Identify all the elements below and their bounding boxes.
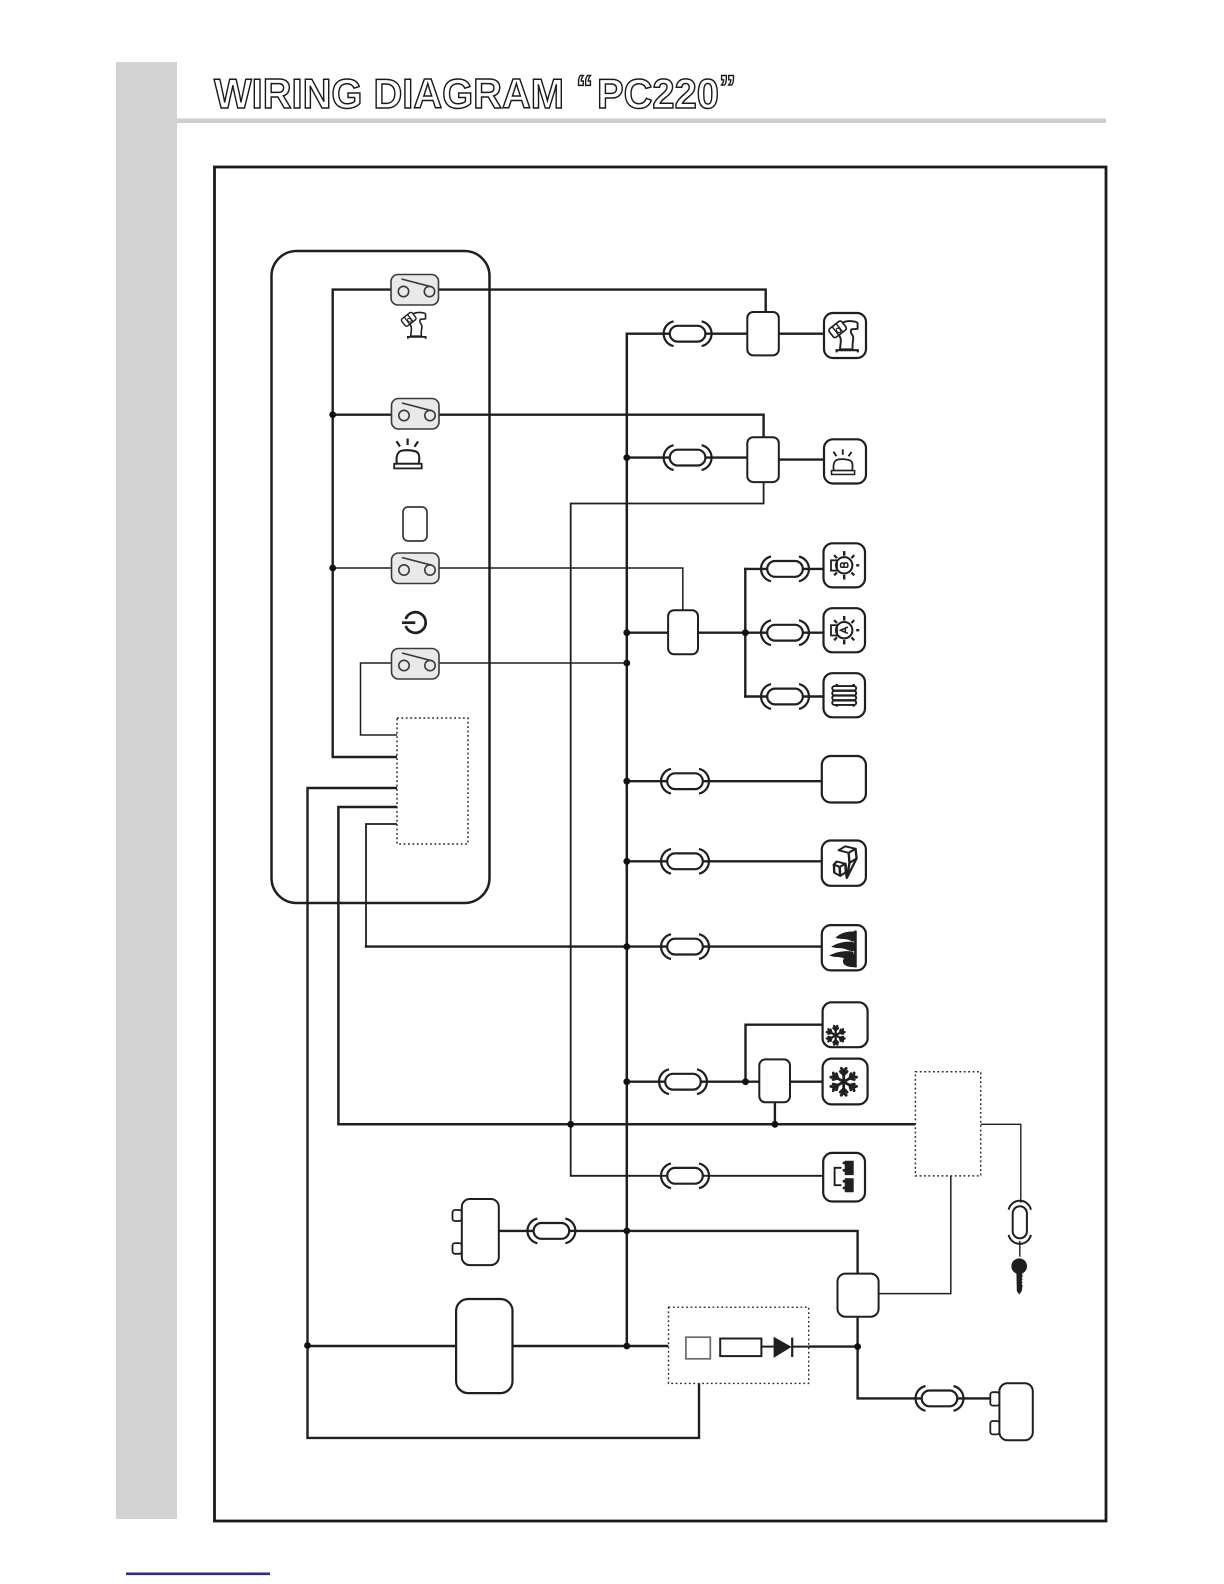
wire row1 relay K1 to load box L1 (779, 333, 824, 335)
relay K7 (759, 1059, 790, 1102)
load box L3 lamp B (824, 543, 866, 587)
junction node snowflake branch (742, 1078, 749, 1085)
junction node bus transformer row (623, 1228, 630, 1235)
icon lamp A in load box L4 (831, 616, 859, 644)
load box L7 ice (822, 841, 866, 886)
wire SW4 left to dotted block (361, 663, 398, 735)
icon big snowflake in load box L10 (830, 1068, 857, 1095)
wire dotted block to bottom loop via left riser (308, 788, 700, 1438)
wire timer bottom to relay K8 (879, 1176, 951, 1294)
load box L8 flame (822, 925, 866, 970)
diode D1 (774, 1337, 809, 1358)
icon small snowflake in load box L9 (826, 1026, 845, 1045)
switch SW3 (392, 553, 440, 584)
switch SW4 (392, 649, 440, 680)
title underline (177, 119, 1106, 124)
timer dotted box (915, 1072, 980, 1176)
connector CN9 snowflake (659, 1069, 707, 1094)
connector CN6 (661, 769, 709, 794)
wire row2 bus to relay K2 (627, 456, 748, 458)
relay K1 (747, 312, 779, 355)
junction node SW3 riser (329, 565, 336, 572)
connector CN1 (664, 321, 712, 346)
load box L5 heater (824, 673, 866, 717)
title text WIRING DIAGRAM PC220 (214, 69, 736, 117)
icon flame in load box L8 (829, 931, 855, 968)
wire row7 branch up to small snowflake box (746, 1025, 823, 1082)
wire row6 flame row (366, 945, 822, 947)
svg-text:“: “ (576, 69, 593, 107)
connector CN8 flame (661, 934, 709, 959)
wire SW1 left to panel vertical riser (333, 290, 397, 757)
wire diode block to junction (809, 1345, 858, 1347)
wire SW2 to relay K2 (439, 415, 764, 438)
wire relay K7 to big snowflake box (790, 1080, 823, 1082)
wire SW3 left stub (333, 567, 392, 569)
diode module sensor square (686, 1337, 710, 1359)
load box L2 beacon (824, 439, 866, 483)
decorative sidebar bar (116, 62, 177, 1519)
load box L1 wand (824, 313, 866, 358)
junction node left riser motor row (304, 1342, 311, 1349)
connector CN10 filter (661, 1163, 709, 1188)
relay K2 (747, 437, 779, 482)
svg-text:WIRING DIAGRAM: WIRING DIAGRAM (214, 70, 564, 117)
icon lamp B in load box L3 (831, 551, 859, 579)
connector CN12 pump (916, 1386, 964, 1411)
wire motor row left (308, 1345, 457, 1347)
svg-text:PC220: PC220 (597, 70, 719, 117)
junction node bus motor row (623, 1343, 630, 1350)
junction node long wire left (567, 1121, 574, 1128)
load box L9 small snowflake (823, 1002, 868, 1047)
load box L6 empty (822, 756, 866, 803)
footer blue line (126, 1573, 270, 1576)
wire row4 bus to empty box L6 (627, 780, 822, 782)
wire row3 bus to relay K3 (627, 632, 668, 634)
transformer T1 (453, 1199, 499, 1265)
icon ice cubes in load box L7 (834, 846, 857, 878)
key switch icon (1011, 1258, 1027, 1294)
wire SW3 to relay K3 (439, 568, 683, 610)
junction node long wire right (772, 1121, 779, 1128)
wire timer right to key connector (981, 1124, 1021, 1202)
wire branch to lamp B (745, 568, 823, 570)
junction node SW2 riser (329, 411, 336, 418)
junction node bus SW4 (623, 660, 630, 667)
wire motor to diode block (513, 1345, 669, 1347)
wire transformer row (499, 1231, 858, 1274)
relay K3 (668, 610, 698, 654)
svg-text:”: ” (719, 69, 736, 107)
icon wand in load box L1 (828, 320, 858, 352)
junction node bus row7 (623, 1078, 630, 1085)
relay K8 (838, 1274, 879, 1317)
connector CN4 lamp A (761, 620, 809, 645)
diode module wire stub (761, 1346, 773, 1348)
wire main bus vertical (626, 334, 629, 1346)
wire row5 bus to ice box L7 (627, 860, 822, 862)
wire branch to heater (745, 695, 823, 697)
wire SW2 left stub (333, 414, 392, 416)
dotted connector block in panel (397, 718, 468, 844)
junction node bus row3 (623, 629, 630, 636)
wire relay K7 bottom drop (774, 1102, 776, 1124)
switch SW2 (392, 399, 440, 430)
main diagram frame (215, 167, 1107, 1521)
junction node bus row4 (623, 778, 630, 785)
junction node diode row right (854, 1343, 861, 1350)
diode module dotted box (669, 1307, 809, 1383)
wire branch to lamp A (745, 632, 823, 634)
wire row1 bus to relay K1 (627, 333, 748, 335)
load box L10 big snowflake (823, 1059, 868, 1105)
wire row3 relay K3 to branch node (698, 632, 745, 634)
icon blank rect in panel (403, 507, 427, 541)
connector CN7 (661, 849, 709, 874)
connector CN5 heater (761, 684, 809, 709)
switch SW1 (391, 275, 439, 306)
wire dotted block to flame row (366, 824, 397, 947)
wire key connector to key (1019, 1242, 1021, 1257)
load box L11 filter (823, 1153, 865, 1202)
junction node bus row5 (623, 858, 630, 865)
wire dotted block to timer (long bottom horizontal) (338, 807, 915, 1124)
icon siren in panel (394, 439, 422, 469)
wire row2 relay K2 to load box L2 (779, 458, 824, 460)
icon power symbol in panel (402, 612, 426, 633)
junction node bus row2 (623, 454, 630, 461)
junction node bus row6 (623, 943, 630, 950)
load box L4 lamp A (824, 608, 866, 652)
wire relay K2 bottom to filter row L11 (571, 482, 824, 1176)
connector CN11 transformer (527, 1219, 575, 1244)
connector CN3 lamp B (761, 557, 809, 582)
icon filter in load box L11 (835, 1161, 854, 1193)
connector CN13 key vertical (1009, 1201, 1031, 1244)
pump motor M1 (456, 1299, 512, 1393)
pump P2 component bottom right (990, 1383, 1033, 1440)
control panel enclosure (272, 251, 490, 903)
wire lamp branch vertical (744, 569, 746, 697)
connector CN2 (664, 445, 712, 470)
wire relay K8 bottom to pump connector (858, 1317, 1000, 1399)
wire row7 bus to relay K7 (627, 1080, 760, 1082)
wire SW4 to bus (439, 662, 627, 664)
wire SW1 to relay K1 (439, 290, 766, 312)
icon heater in load box L5 (832, 684, 856, 707)
icon wand in panel (401, 312, 426, 339)
icon beacon in load box L2 (832, 449, 855, 474)
junction node lamp branch (742, 629, 749, 636)
diode module resistor rectangle (720, 1339, 761, 1357)
